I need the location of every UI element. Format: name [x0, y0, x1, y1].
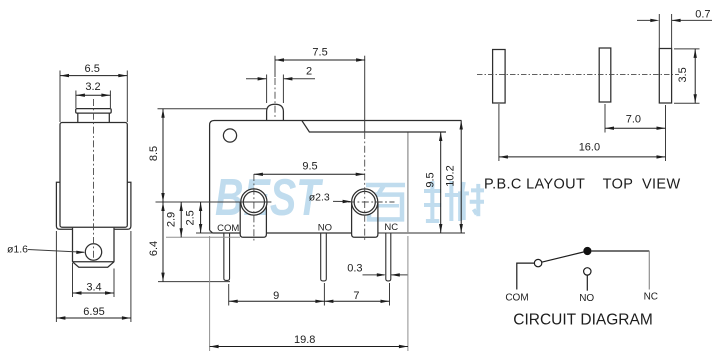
front body bottom left chamfer — [210, 230, 241, 233]
svg-text:ø2.3: ø2.3 — [309, 192, 330, 204]
dim 6.4 — [162, 202, 164, 282]
side view vertical centerline — [93, 99, 95, 261]
dim 19.8 extension lines — [209, 236, 211, 351]
svg-text:16.0: 16.0 — [579, 142, 600, 154]
pcb horizontal centerline — [477, 74, 679, 76]
svg-text:NO: NO — [579, 293, 594, 304]
dim 0.3 right segment — [391, 274, 408, 276]
watermark chinese char 1 — [366, 183, 405, 188]
svg-text:9: 9 — [273, 290, 279, 302]
plunger centerline — [274, 78, 276, 118]
switch lever blade — [542, 252, 584, 262]
svg-text:19.8: 19.8 — [294, 334, 315, 346]
svg-text:6.4: 6.4 — [148, 241, 160, 256]
dim 7.0 extension lines — [604, 104, 606, 133]
dim 3.4 extension lines — [72, 263, 74, 297]
dim 7.0 — [605, 127, 666, 129]
svg-text:NC: NC — [644, 292, 658, 303]
side view plunger cap right side — [108, 113, 110, 122]
dim 9.5 horizontal — [254, 173, 365, 175]
dim 10.2 vertical — [460, 121, 462, 234]
dim 7.5 extension lines — [274, 56, 276, 77]
svg-text:9.5: 9.5 — [424, 172, 436, 187]
svg-text:7.5: 7.5 — [312, 47, 327, 59]
leader line dia 2.3 — [333, 200, 350, 202]
dim 6.5 — [60, 75, 127, 77]
svg-text:ø1.6: ø1.6 — [7, 244, 28, 256]
dim 2.9 — [180, 202, 182, 237]
svg-text:6.5: 6.5 — [85, 63, 100, 75]
front small corner hole — [223, 129, 236, 142]
svg-text:0.7: 0.7 — [695, 8, 710, 20]
dim 0.3 left segment — [363, 274, 385, 276]
watermark chinese char 3 — [461, 182, 464, 203]
dim 3.5 extension lines — [674, 48, 700, 50]
node common junction — [583, 247, 591, 255]
lever arm bottom edge — [302, 121, 446, 132]
pcb slot right — [659, 49, 671, 104]
right mounting hole inner — [354, 191, 375, 212]
dim 7 — [324, 300, 389, 302]
side view plunger cap plate — [76, 109, 112, 114]
dim 2.5 — [200, 202, 202, 233]
dim 6.95 extension lines — [55, 231, 57, 322]
node NO contact — [584, 268, 591, 275]
svg-text:BEST: BEST — [215, 168, 324, 227]
svg-text:2.5: 2.5 — [184, 210, 196, 225]
watermark chinese char 2 — [430, 181, 434, 221]
dim 0.7 right segment — [672, 19, 712, 21]
dim 0.7 extension lines — [658, 14, 660, 48]
svg-text:8.5: 8.5 — [148, 146, 160, 161]
right mounting hole outer — [352, 189, 378, 215]
leader line dia 1.6 — [28, 250, 84, 253]
wire NO lead — [586, 275, 588, 291]
dim 8.5 — [162, 109, 164, 202]
left mounting hole outer — [241, 189, 267, 215]
side view right flange — [114, 182, 131, 229]
svg-text:10.2: 10.2 — [445, 165, 457, 186]
svg-text:0.3: 0.3 — [347, 262, 362, 274]
dim 9 and 7 extension lines — [228, 284, 230, 306]
dim 2 right segment — [283, 78, 315, 80]
dim 2 left segment — [246, 78, 267, 80]
dim 6.95 — [56, 317, 130, 319]
side view plunger cap left side — [77, 113, 79, 122]
watermark BEST logo text — [215, 168, 324, 227]
dim 3.4 — [73, 292, 115, 294]
front body right edge — [407, 132, 409, 233]
svg-text:P.B.C LAYOUT TOP VIEW: P.B.C LAYOUT TOP VIEW — [484, 177, 681, 193]
left hole vertical centerline — [253, 174, 255, 241]
dim 6.4 bottom extension line — [158, 281, 230, 283]
wire junction to NC corner — [592, 250, 650, 252]
dim 9.5 vertical — [440, 132, 442, 233]
terminal COM — [224, 233, 230, 280]
dim 8.5 top extension line — [158, 108, 267, 110]
node COM pivot contact — [534, 259, 541, 266]
front body bottom edge middle — [266, 232, 351, 234]
dim 3.5 — [694, 49, 696, 103]
terminal NC — [386, 233, 391, 281]
dim 0.7 left segment — [637, 19, 655, 21]
side view bottom tab — [72, 228, 114, 267]
wire COM lead — [517, 263, 535, 289]
svg-text:COM: COM — [217, 223, 239, 234]
dim 16.0 — [499, 156, 666, 158]
svg-text:7.0: 7.0 — [626, 114, 641, 126]
svg-text:2: 2 — [306, 66, 312, 78]
dim 2.5 bottom extension line — [196, 232, 213, 234]
front body outline — [210, 121, 462, 231]
svg-text:6.95: 6.95 — [83, 306, 104, 318]
side view mounting hole — [85, 244, 101, 260]
svg-text:COM: COM — [505, 292, 528, 303]
hole axis line through left hole — [156, 201, 272, 203]
dim 2.9 bottom extension line — [166, 236, 240, 238]
dim 3.2 — [76, 94, 111, 96]
right mounting boss — [352, 202, 378, 237]
terminal NO — [321, 233, 327, 281]
svg-text:2.9: 2.9 — [165, 212, 177, 227]
svg-text:3.2: 3.2 — [85, 81, 100, 93]
side view left flange — [56, 182, 72, 229]
dim 2 extension lines — [266, 75, 268, 104]
svg-text:3.4: 3.4 — [86, 281, 101, 293]
svg-text:CIRCUIT DIAGRAM: CIRCUIT DIAGRAM — [513, 312, 653, 329]
right hole horizontal centerline — [348, 201, 395, 203]
plunger button — [267, 104, 284, 120]
dim 16.0 extension line — [498, 104, 500, 161]
left mounting boss — [240, 202, 266, 237]
front body bottom edge right and extension line — [378, 232, 465, 234]
dim 7.5 — [275, 59, 365, 61]
svg-text:NC: NC — [384, 222, 398, 233]
left mounting hole inner — [243, 191, 264, 212]
dim 6.5 extension lines — [59, 71, 61, 123]
dim 19.8 — [210, 346, 408, 348]
wire NC lead — [648, 251, 650, 290]
pcb slot left — [493, 50, 506, 104]
svg-text:3.5: 3.5 — [677, 67, 689, 82]
svg-text:7: 7 — [353, 290, 359, 302]
pcb slot middle — [599, 48, 611, 102]
side view body outline — [60, 123, 127, 228]
svg-text:NO: NO — [318, 223, 332, 234]
svg-text:9.5: 9.5 — [302, 160, 317, 172]
dim 9 — [229, 300, 325, 302]
dim 3.2 extension lines — [75, 91, 77, 109]
right hole vertical centerline — [364, 56, 366, 132]
